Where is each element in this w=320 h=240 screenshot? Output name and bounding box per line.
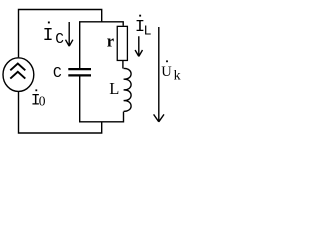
current source chevron lower [10,72,25,79]
svg-text:U: U [161,64,172,80]
capacitor C top plate [68,68,91,70]
label U_k dot [166,60,168,62]
wire: left vertical bottom + bottom wire + riser to inner bottom node [19,92,102,133]
capacitor C bottom plate [68,74,91,76]
wire: left vertical + top wire + right drop to inner top node [19,10,102,58]
label I_C dot [48,22,50,24]
wire: inner bottom wire from capacitor branch to inductor bottom [80,76,124,122]
svg-text:L: L [144,25,152,40]
svg-text:C: C [55,32,64,48]
wire: resistor bottom to coil top [122,61,124,69]
svg-text:I: I [43,26,54,46]
svg-text:r: r [107,32,114,51]
resistor r body [117,26,127,60]
svg-text:k: k [174,68,181,83]
svg-text:L: L [109,79,119,98]
current arrow I_C [66,22,73,46]
current arrow I_L [135,36,142,56]
svg-text:0: 0 [39,93,46,108]
inductor L coil (4 loops) [124,68,132,111]
current source I0 circle [3,58,34,92]
label I_0 dot [35,89,37,91]
svg-text:C: C [53,66,62,82]
label I_L dot [139,15,141,17]
wire: inner top wire from capacitor branch to resistor branch [80,22,124,69]
voltage arrow U_k [154,27,164,122]
current source chevron upper [10,64,25,71]
